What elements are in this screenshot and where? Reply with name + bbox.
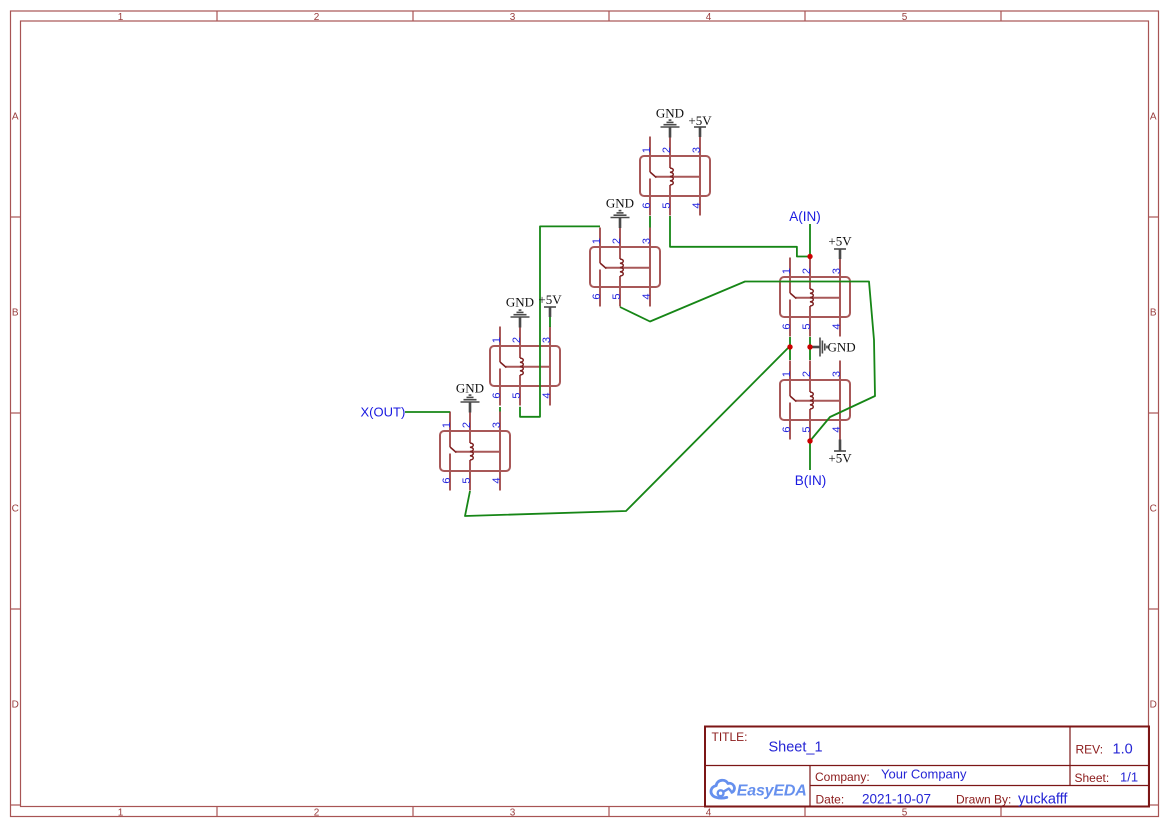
svg-text:3: 3 xyxy=(831,371,843,377)
relay K6 xyxy=(780,361,850,440)
svg-text:2: 2 xyxy=(511,337,523,343)
svg-text:2: 2 xyxy=(801,371,813,377)
svg-text:3: 3 xyxy=(510,12,516,23)
relay K3 xyxy=(490,327,560,406)
svg-text:GND: GND xyxy=(606,195,634,210)
svg-text:+5V: +5V xyxy=(828,450,852,465)
svg-text:1: 1 xyxy=(441,422,453,428)
title block xyxy=(705,727,1149,807)
svg-text:C: C xyxy=(12,503,19,514)
svg-text:5: 5 xyxy=(511,392,523,398)
svg-text:A: A xyxy=(1150,111,1157,122)
svg-text:5: 5 xyxy=(611,293,623,299)
GND symbol above K1 pin2 xyxy=(661,120,680,137)
relay K4 xyxy=(440,412,510,491)
GND symbol above K2 pin2 xyxy=(611,211,630,228)
svg-text:2: 2 xyxy=(801,268,813,274)
svg-text:5: 5 xyxy=(902,12,908,23)
wire to GND spur xyxy=(810,346,813,348)
svg-text:3: 3 xyxy=(831,268,843,274)
wire K1 pin6 to K2 pin3 xyxy=(649,216,651,228)
junction node GND xyxy=(807,344,812,349)
svg-text:6: 6 xyxy=(641,202,653,208)
wire A(IN) stem xyxy=(809,224,811,257)
svg-text:Sheet:: Sheet: xyxy=(1075,771,1110,785)
wire K2 pin5 to node B xyxy=(620,282,875,442)
svg-text:D: D xyxy=(12,699,19,710)
GND symbol right of K5 pin5 (rotated) xyxy=(811,338,828,357)
svg-text:yuckafff: yuckafff xyxy=(1018,792,1068,808)
junction node A xyxy=(807,254,812,259)
svg-text:X(OUT): X(OUT) xyxy=(361,405,406,420)
svg-text:+5V: +5V xyxy=(828,233,852,248)
svg-text:6: 6 xyxy=(781,426,793,432)
svg-text:B: B xyxy=(12,307,19,318)
svg-text:Your Company: Your Company xyxy=(881,767,967,782)
svg-text:C: C xyxy=(1150,503,1157,514)
svg-text:Sheet_1: Sheet_1 xyxy=(769,740,823,756)
svg-text:6: 6 xyxy=(441,477,453,483)
svg-text:3: 3 xyxy=(510,807,516,818)
svg-text:B(IN): B(IN) xyxy=(795,473,827,488)
svg-text:1.0: 1.0 xyxy=(1113,742,1133,758)
svg-text:EasyEDA: EasyEDA xyxy=(737,782,807,799)
svg-text:GND: GND xyxy=(828,339,856,354)
svg-text:Drawn By:: Drawn By: xyxy=(956,793,1011,807)
svg-text:4: 4 xyxy=(691,202,703,208)
wire K4 pin5 to node C xyxy=(465,347,789,516)
svg-text:B: B xyxy=(1150,307,1157,318)
svg-text:3: 3 xyxy=(691,147,703,153)
svg-text:2021-10-07: 2021-10-07 xyxy=(862,792,931,807)
svg-text:6: 6 xyxy=(591,293,603,299)
wire K3 pin6 to K4 pin3 xyxy=(499,407,501,412)
junction node B xyxy=(807,438,812,443)
svg-text:5: 5 xyxy=(902,807,908,818)
svg-text:D: D xyxy=(1150,699,1157,710)
relay K5 xyxy=(780,258,850,337)
svg-text:3: 3 xyxy=(541,337,553,343)
svg-text:4: 4 xyxy=(491,477,503,483)
svg-text:2: 2 xyxy=(611,238,623,244)
GND symbol above K3 pin2 xyxy=(511,310,530,327)
svg-text:3: 3 xyxy=(491,422,503,428)
wire X(OUT) to K4 pin1 xyxy=(405,411,450,413)
svg-text:1: 1 xyxy=(118,12,124,23)
svg-text:4: 4 xyxy=(831,426,843,432)
svg-text:2: 2 xyxy=(461,422,473,428)
svg-text:1/1: 1/1 xyxy=(1120,770,1138,785)
svg-text:TITLE:: TITLE: xyxy=(712,730,748,744)
svg-text:Date:: Date: xyxy=(816,793,845,807)
svg-text:REV:: REV: xyxy=(1076,743,1104,757)
GND symbol above K4 pin2 xyxy=(461,395,480,412)
svg-text:5: 5 xyxy=(801,323,813,329)
svg-text:6: 6 xyxy=(491,392,503,398)
svg-text:1: 1 xyxy=(491,337,503,343)
svg-text:2: 2 xyxy=(314,12,320,23)
wire K1 pin5 to node A xyxy=(670,216,810,257)
svg-text:4: 4 xyxy=(706,12,712,23)
svg-text:5: 5 xyxy=(461,477,473,483)
wire K5 pin5 to K6 pin2 xyxy=(809,337,811,360)
svg-text:2: 2 xyxy=(661,147,673,153)
svg-text:3: 3 xyxy=(641,238,653,244)
svg-text:GND: GND xyxy=(456,380,484,395)
svg-text:1: 1 xyxy=(118,807,124,818)
svg-text:1: 1 xyxy=(781,371,793,377)
relay K2 xyxy=(590,228,660,307)
svg-text:1: 1 xyxy=(641,147,653,153)
svg-text:4: 4 xyxy=(641,293,653,299)
junction node C xyxy=(787,344,792,349)
svg-text:2: 2 xyxy=(314,807,320,818)
wire K5 pin6 to K6 pin1 xyxy=(789,337,791,360)
wire K2 pin1 to K3 pin5 xyxy=(520,226,600,416)
svg-text:1: 1 xyxy=(781,268,793,274)
svg-text:Company:: Company: xyxy=(815,770,870,784)
svg-text:+5V: +5V xyxy=(688,113,712,128)
svg-text:+5V: +5V xyxy=(538,292,562,307)
+5V symbol below K6 pin4 xyxy=(834,440,846,452)
svg-text:GND: GND xyxy=(506,294,534,309)
svg-text:A: A xyxy=(12,111,19,122)
svg-text:GND: GND xyxy=(656,105,684,120)
svg-text:4: 4 xyxy=(541,392,553,398)
EasyEDA logo xyxy=(711,780,735,798)
svg-text:A(IN): A(IN) xyxy=(789,209,821,224)
svg-text:5: 5 xyxy=(801,426,813,432)
svg-text:5: 5 xyxy=(661,202,673,208)
relay K1 xyxy=(640,137,710,216)
wire +5V to K3 pin3 xyxy=(549,317,551,327)
wire B(IN) stem xyxy=(809,441,811,470)
svg-text:1: 1 xyxy=(591,238,603,244)
svg-text:4: 4 xyxy=(831,323,843,329)
+5V symbol above K1 pin3 xyxy=(694,127,706,137)
+5V symbol above K3 pin3 xyxy=(544,307,556,317)
svg-text:4: 4 xyxy=(706,807,712,818)
+5V symbol above K5 pin3 xyxy=(834,249,846,259)
svg-text:6: 6 xyxy=(781,323,793,329)
